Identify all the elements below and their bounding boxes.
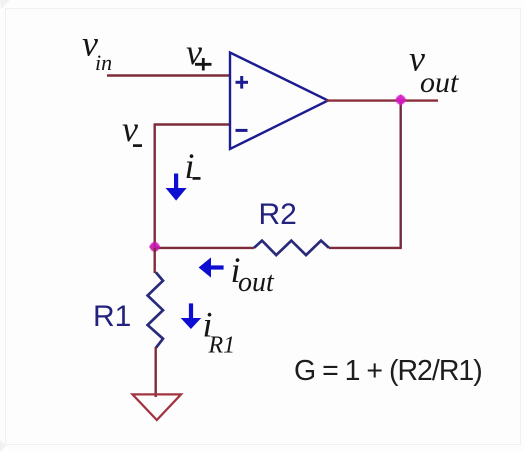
op-amp - input marker xyxy=(236,129,248,132)
ground xyxy=(133,394,182,420)
label i_out xyxy=(231,250,276,298)
label v_- xyxy=(122,109,142,149)
wire: feedback bottom left of R2 xyxy=(155,247,254,249)
current arrow i- (down) xyxy=(166,174,187,201)
wire: feedback vertical right xyxy=(400,100,402,248)
svg-text:out: out xyxy=(420,66,459,99)
label v_in xyxy=(82,24,112,76)
svg-text:R1: R1 xyxy=(93,300,131,333)
current arrow i_out (left) xyxy=(199,257,224,277)
wire: v_in input to + terminal xyxy=(107,74,231,76)
node A junction dot (magenta) xyxy=(149,241,160,252)
label i_- xyxy=(185,146,201,186)
wire: R1 to ground xyxy=(154,347,156,397)
wire: op-amp output xyxy=(326,99,438,101)
svg-text:v: v xyxy=(122,109,138,149)
svg-text:v: v xyxy=(186,32,202,72)
op-amp U1 xyxy=(230,53,328,150)
svg-text:out: out xyxy=(238,267,275,298)
label v_out xyxy=(409,39,459,100)
op-amp + input marker xyxy=(236,76,249,89)
resistor R1 zigzag xyxy=(148,272,163,348)
node v_out junction dot (magenta) xyxy=(395,94,406,105)
wire: feedback bottom right of R2 xyxy=(329,247,402,249)
label v_+ xyxy=(186,32,212,72)
svg-text:i: i xyxy=(185,146,195,186)
svg-text:G = 1 + (R2/R1): G = 1 + (R2/R1) xyxy=(294,355,482,387)
svg-text:in: in xyxy=(95,50,112,75)
wire: inverting input vertical down to node A xyxy=(153,123,155,248)
label i_R1 xyxy=(203,305,236,359)
wire: node A down to R1 xyxy=(153,248,155,273)
svg-text:R2: R2 xyxy=(259,198,297,231)
svg-text:R1: R1 xyxy=(208,332,236,358)
wire: inverting input horizontal xyxy=(155,123,231,125)
resistor R2 zigzag xyxy=(254,241,329,256)
current arrow i_R1 (down) xyxy=(181,303,202,329)
